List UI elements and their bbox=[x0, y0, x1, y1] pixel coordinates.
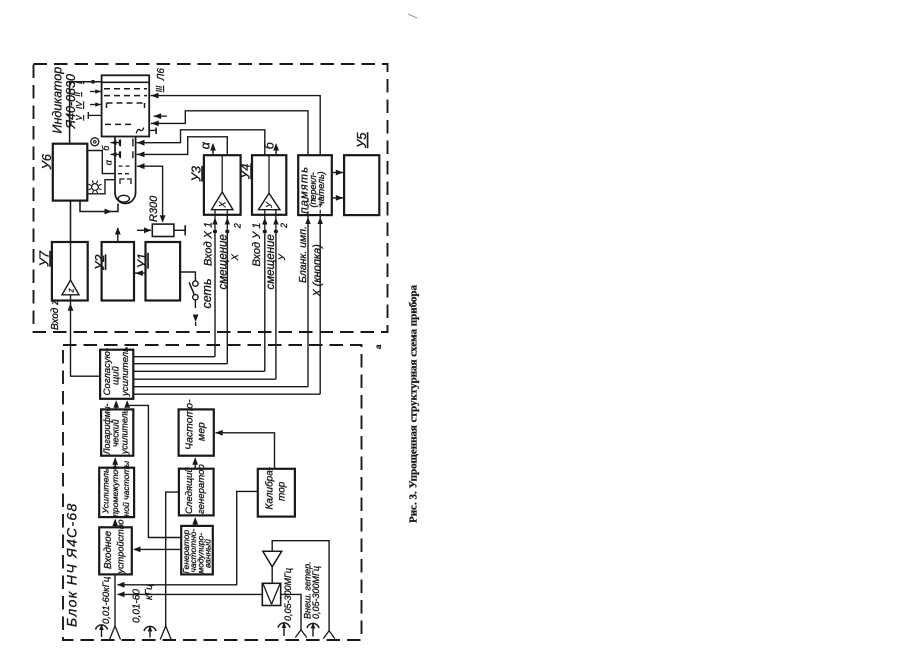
svg-text:2: 2 bbox=[233, 223, 243, 229]
svg-text:смещение: смещение bbox=[265, 234, 277, 289]
svg-text:z: z bbox=[66, 288, 75, 293]
svg-text:Бланк. имп.: Бланк. имп. bbox=[297, 226, 309, 283]
svg-text:X: X bbox=[217, 201, 227, 209]
svg-text:Входное: Входное bbox=[103, 530, 114, 569]
svg-text:Вход У 1: Вход У 1 bbox=[251, 223, 263, 267]
svg-text:R300: R300 bbox=[148, 195, 160, 222]
svg-text:Я40-0830: Я40-0830 bbox=[64, 74, 78, 129]
svg-text:Индикатор: Индикатор bbox=[50, 67, 64, 134]
svg-text:0,01-60: 0,01-60 bbox=[131, 589, 142, 623]
svg-text:Л6: Л6 bbox=[156, 68, 167, 82]
svg-text:a: a bbox=[374, 344, 383, 349]
svg-text:У2: У2 bbox=[92, 254, 107, 271]
svg-text:Калибра-: Калибра- bbox=[263, 466, 275, 509]
svg-text:ванный: ванный bbox=[202, 539, 212, 568]
svg-text:мер: мер bbox=[196, 422, 208, 441]
svg-text:кГц: кГц bbox=[144, 584, 155, 600]
svg-text:2: 2 bbox=[279, 223, 289, 229]
svg-text:α: α bbox=[199, 141, 213, 149]
svg-text:0,05-300МГц: 0,05-300МГц bbox=[283, 568, 293, 621]
svg-text:У3: У3 bbox=[188, 165, 203, 182]
svg-text:У7: У7 bbox=[36, 250, 51, 267]
svg-text:Усилитель: Усилитель bbox=[100, 468, 110, 515]
svg-text:0,01-60кГц: 0,01-60кГц bbox=[101, 576, 112, 624]
svg-text:У6: У6 bbox=[39, 153, 54, 170]
svg-text:α: α bbox=[104, 159, 114, 165]
svg-text:устройство: устройство bbox=[116, 519, 126, 574]
svg-text:сеть: сеть bbox=[200, 278, 214, 308]
svg-text:генератор: генератор bbox=[196, 464, 207, 514]
svg-text:Вход z: Вход z bbox=[50, 300, 61, 330]
svg-text:У1: У1 bbox=[134, 253, 149, 270]
svg-text:усилитель: усилитель bbox=[119, 409, 129, 455]
svg-text:У: У bbox=[264, 201, 274, 209]
svg-text:промежуточ-: промежуточ- bbox=[110, 463, 120, 517]
svg-text:X: X bbox=[230, 253, 241, 261]
svg-text:У5: У5 bbox=[354, 132, 369, 149]
svg-text:Частото-: Частото- bbox=[184, 399, 196, 450]
svg-text:Блок НЧ Я4С-68: Блок НЧ Я4С-68 bbox=[63, 502, 79, 627]
svg-text:смещение: смещение bbox=[218, 234, 230, 289]
svg-text:ной частоты: ной частоты bbox=[121, 460, 131, 516]
svg-text:III: III bbox=[155, 85, 164, 92]
svg-text:Рис. 3. Упрощенная структурная: Рис. 3. Упрощенная структурная схема при… bbox=[408, 284, 420, 523]
svg-text:У4: У4 bbox=[237, 163, 252, 180]
svg-text:0,05-300МГц: 0,05-300МГц bbox=[311, 566, 321, 619]
svg-text:У: У bbox=[277, 253, 288, 261]
svg-text:чатель): чатель) bbox=[316, 171, 326, 206]
svg-text:Вход X 1: Вход X 1 bbox=[203, 222, 215, 266]
svg-text:X (кнопка): X (кнопка) bbox=[312, 244, 324, 298]
svg-text:Следящий: Следящий bbox=[184, 467, 195, 514]
svg-text:усилитель: усилитель bbox=[120, 347, 131, 397]
svg-text:тор: тор bbox=[276, 481, 287, 501]
